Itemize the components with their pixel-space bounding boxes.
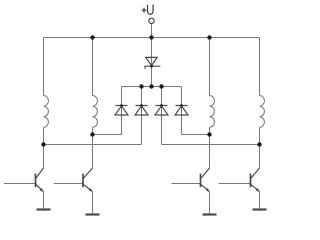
diode VD2	[135, 106, 148, 116]
wire diode VD3 riser	[161, 87, 163, 106]
wire vertical V1 outer-left upper	[43, 38, 45, 96]
node diode rail / VD2	[139, 84, 143, 88]
inductor L1 outer-left	[44, 96, 49, 128]
emitter arrow Q1	[40, 188, 44, 192]
wire +U drop through zener to diode rail	[151, 24, 153, 87]
diode VD3	[155, 106, 168, 116]
inductor L2 inner-left	[93, 96, 98, 128]
transistor Q4	[251, 168, 260, 192]
wire vertical V1 outer-left lower	[43, 127, 45, 168]
inductor L4 outer-right	[260, 96, 265, 128]
wire diode VD1 lower lead	[121, 106, 123, 135]
ground Q1	[37, 208, 51, 210]
node top rail / +U	[149, 35, 153, 39]
wire diode VD3 lower lead	[161, 106, 163, 145]
wire link L2 bottom to VD1	[93, 134, 122, 136]
node top rail / V4	[207, 35, 211, 39]
node diode rail / VD3	[159, 84, 163, 88]
wire link L1 bottom to VD2	[44, 144, 142, 146]
node diode apex 181.5	[180, 104, 183, 107]
transistor Q3	[201, 168, 210, 192]
diode VD1	[115, 106, 128, 116]
wire base stub Q4	[219, 183, 251, 185]
wire vertical V5 outer-right lower	[259, 127, 261, 168]
wire diode VD1 riser	[121, 87, 123, 106]
ground Q4	[253, 208, 267, 210]
node diode apex 141.5	[140, 104, 143, 107]
wire base stub Q1	[4, 183, 36, 185]
wire top rail	[44, 37, 260, 39]
wire emitter Q3	[209, 192, 211, 214]
wire vertical V5 outer-right upper	[259, 38, 261, 96]
emitter arrow Q4	[256, 188, 260, 192]
node L4 bottom	[257, 142, 261, 146]
label +U	[142, 5, 154, 15]
wire vertical V4 inner-right upper	[209, 38, 211, 96]
node zener apex	[150, 65, 153, 68]
emitter arrow Q3	[206, 188, 210, 192]
wire link VD4 to L3 bottom	[182, 134, 210, 136]
inductor L3 inner-right	[210, 96, 215, 128]
node diode rail / zener	[149, 84, 153, 88]
emitter arrow Q2	[89, 188, 93, 192]
node L3 bottom	[207, 132, 211, 136]
diode VD4	[175, 106, 188, 116]
wire vertical V4 inner-right lower	[209, 127, 211, 168]
node dots	[41, 35, 261, 146]
wire link VD3 to L4 bottom	[162, 144, 260, 146]
wire base stub Q2	[54, 183, 83, 185]
wire diode rail	[122, 86, 182, 88]
wire vertical V2 inner-left lower	[92, 127, 94, 168]
wire emitter Q1	[43, 192, 45, 209]
node diode apex 121.5	[120, 104, 123, 107]
wire diode VD2 riser	[141, 87, 143, 106]
wire diode VD4 lower lead	[181, 106, 183, 135]
wire emitter Q4	[259, 192, 261, 209]
wire diode VD4 riser	[181, 87, 183, 106]
ground Q2	[86, 213, 100, 215]
node L1 bottom	[41, 142, 45, 146]
wire emitter Q2	[92, 192, 94, 214]
transistor Q1	[36, 168, 44, 192]
node diode apex 161.5	[160, 104, 163, 107]
node top rail / V2	[90, 35, 94, 39]
transistor Q2	[83, 168, 93, 192]
wire diode VD2 lower lead	[141, 106, 143, 145]
wire vertical V2 inner-left upper	[92, 38, 94, 96]
node L2 bottom	[90, 132, 94, 136]
terminal +U circle	[149, 18, 154, 23]
wire base stub Q3	[172, 183, 201, 185]
ground Q3	[203, 213, 217, 215]
zener diode VD0	[145, 57, 160, 68]
